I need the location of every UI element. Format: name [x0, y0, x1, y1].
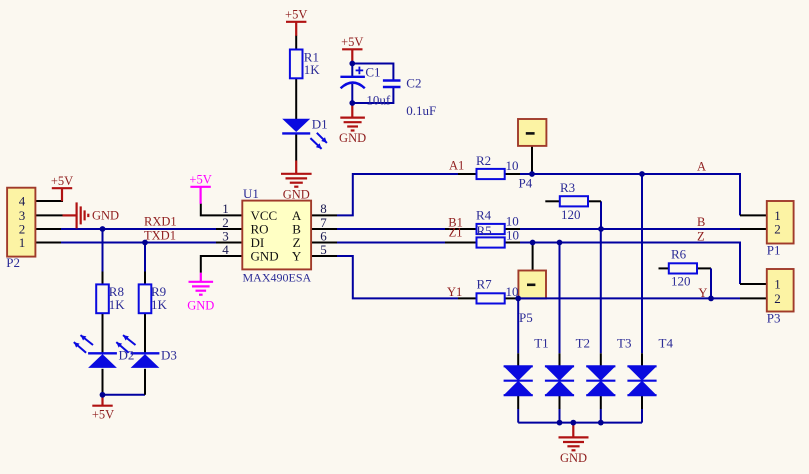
svg-text:D3: D3	[161, 348, 177, 363]
svg-text:1K: 1K	[304, 62, 321, 77]
svg-text:GND: GND	[283, 187, 310, 201]
svg-text:T4: T4	[659, 336, 674, 351]
svg-text:GND: GND	[251, 248, 279, 263]
svg-text:10uf: 10uf	[366, 93, 391, 108]
svg-text:Y1: Y1	[447, 285, 462, 299]
svg-text:4: 4	[222, 242, 229, 257]
svg-text:U1: U1	[243, 186, 259, 201]
svg-text:0.1uF: 0.1uF	[406, 103, 436, 118]
svg-text:T3: T3	[617, 336, 631, 351]
svg-text:1K: 1K	[151, 297, 168, 312]
svg-text:P5: P5	[519, 310, 533, 325]
svg-text:+5V: +5V	[51, 174, 73, 188]
svg-text:1: 1	[774, 276, 781, 291]
svg-text:R3: R3	[560, 180, 575, 195]
svg-text:C2: C2	[406, 75, 421, 90]
svg-text:C1: C1	[365, 65, 380, 80]
svg-text:MAX490ESA: MAX490ESA	[243, 270, 312, 284]
svg-text:+5V: +5V	[285, 8, 307, 22]
svg-text:GND: GND	[92, 208, 119, 222]
svg-text:+5V: +5V	[341, 35, 363, 49]
svg-text:T2: T2	[576, 336, 590, 351]
svg-text:D2: D2	[119, 348, 135, 363]
svg-text:1: 1	[19, 235, 26, 250]
svg-text:120: 120	[561, 207, 581, 222]
svg-text:+5V: +5V	[92, 408, 114, 422]
svg-text:P1: P1	[767, 243, 781, 258]
svg-text:5: 5	[320, 242, 327, 257]
svg-text:A: A	[697, 160, 706, 174]
svg-text:Y: Y	[698, 286, 707, 300]
svg-text:TXD1: TXD1	[144, 228, 176, 242]
svg-text:GND: GND	[560, 451, 587, 465]
svg-text:GND: GND	[187, 298, 214, 312]
svg-text:2: 2	[774, 221, 781, 236]
svg-text:P2: P2	[6, 255, 20, 270]
svg-text:1K: 1K	[109, 297, 126, 312]
svg-text:R7: R7	[477, 276, 493, 291]
svg-text:Y: Y	[292, 248, 302, 263]
svg-text:P3: P3	[767, 311, 781, 326]
svg-text:10: 10	[506, 214, 519, 229]
svg-text:10: 10	[506, 284, 519, 299]
svg-text:120: 120	[671, 274, 691, 289]
svg-text:Z: Z	[697, 229, 705, 243]
svg-text:P4: P4	[519, 176, 533, 191]
svg-text:R5: R5	[477, 223, 492, 238]
svg-text:+5V: +5V	[189, 173, 211, 187]
svg-text:T1: T1	[534, 336, 548, 351]
svg-text:A1: A1	[449, 158, 464, 172]
svg-text:10: 10	[506, 228, 519, 243]
svg-text:GND: GND	[339, 131, 366, 145]
svg-text:R6: R6	[671, 247, 687, 262]
svg-text:R4: R4	[476, 208, 492, 223]
svg-text:2: 2	[774, 291, 781, 306]
svg-text:R2: R2	[476, 153, 491, 168]
svg-text:D1: D1	[312, 117, 328, 132]
svg-text:RXD1: RXD1	[144, 215, 177, 229]
svg-text:B: B	[697, 215, 705, 229]
svg-text:10: 10	[506, 158, 519, 173]
svg-text:4: 4	[19, 193, 26, 208]
svg-text:Z1: Z1	[449, 225, 463, 239]
